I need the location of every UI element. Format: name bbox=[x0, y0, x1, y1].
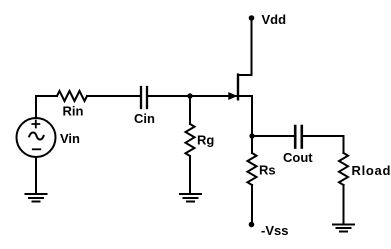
ground (below Vin) bbox=[26, 194, 47, 202]
capacitor C2 Cout bbox=[295, 126, 302, 148]
transistor Q1 (drain stub) bbox=[239, 74, 252, 76]
ground (below Rload) bbox=[333, 225, 354, 232]
resistor R2 Rg bbox=[186, 124, 195, 156]
wire drain to Vdd bbox=[251, 19, 253, 75]
power terminal -Vss bbox=[249, 222, 255, 228]
wire Rs to -Vss bbox=[251, 185, 253, 222]
wire Rin to Cin bbox=[87, 95, 140, 97]
transistor Q1 (channel bar) bbox=[237, 73, 239, 100]
wire Cout to Rload bbox=[303, 136, 344, 153]
wire Cin to gate of Q1 bbox=[149, 95, 238, 97]
svg-text:-Vss: -Vss bbox=[261, 223, 288, 238]
wire Vin bottom to ground bbox=[35, 157, 37, 193]
wire source down to Rs bbox=[251, 96, 253, 153]
voltage source Vin bbox=[17, 118, 56, 157]
transistor Q1 (gate arrowhead) bbox=[229, 93, 236, 99]
svg-text:Rin: Rin bbox=[63, 104, 84, 119]
resistor R3 Rs bbox=[248, 153, 257, 185]
svg-text:Cin: Cin bbox=[134, 111, 155, 126]
wire node A down to Rg bbox=[189, 96, 191, 124]
svg-text:Rload: Rload bbox=[352, 163, 391, 178]
node A junction dot (gate / Rg) bbox=[187, 93, 192, 98]
resistor R4 Rload bbox=[339, 153, 348, 185]
svg-text:Rg: Rg bbox=[197, 133, 214, 148]
svg-text:Rs: Rs bbox=[259, 163, 276, 178]
transistor Q1 (source stub) bbox=[239, 95, 252, 97]
svg-text:Vin: Vin bbox=[60, 131, 80, 146]
capacitor C1 Cin bbox=[141, 87, 147, 108]
node B junction dot (output node) bbox=[249, 133, 254, 138]
wire node B to Cout bbox=[252, 135, 294, 137]
svg-text:Vdd: Vdd bbox=[262, 12, 287, 27]
wire Rload to ground bbox=[343, 185, 345, 224]
svg-text:Cout: Cout bbox=[283, 150, 313, 165]
power terminal Vdd bbox=[249, 15, 255, 21]
ground (below Rg) bbox=[180, 194, 201, 202]
wire Vin top to Rin bbox=[36, 96, 57, 118]
resistor R1 Rin bbox=[57, 91, 87, 101]
wire Rg to ground bbox=[189, 156, 191, 193]
